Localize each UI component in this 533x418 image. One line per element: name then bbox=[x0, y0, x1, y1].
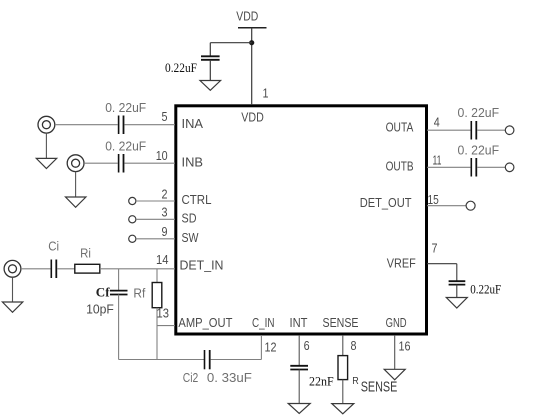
wire pin 12 C_IN stub bbox=[260, 335, 262, 360]
svg-text:GND: GND bbox=[386, 315, 407, 330]
svg-text:6: 6 bbox=[304, 338, 310, 353]
ground (pin 16) bbox=[384, 369, 405, 380]
svg-text:11: 11 bbox=[433, 153, 442, 168]
svg-text:12: 12 bbox=[265, 340, 277, 355]
resistor Ri bbox=[75, 246, 100, 274]
terminal (DET_OUT) bbox=[466, 201, 475, 210]
wire Ri to pin 14 bbox=[100, 268, 175, 270]
wire C2 to pin 5 bbox=[124, 124, 175, 126]
terminal (SD) bbox=[129, 216, 136, 223]
svg-text:INA: INA bbox=[182, 116, 204, 131]
svg-text:INB: INB bbox=[182, 154, 204, 169]
capacitor Cf 10pF bbox=[86, 286, 127, 317]
svg-text:DET_IN: DET_IN bbox=[180, 258, 224, 273]
wire Ci2 to pin 12 bbox=[211, 359, 262, 361]
wire pin 7 VREF to C7 bbox=[427, 264, 457, 281]
wire pin 4 OUTA to C5 bbox=[427, 129, 470, 131]
svg-text:14: 14 bbox=[156, 252, 169, 267]
wire DET_IN node down to Cf bbox=[118, 269, 120, 290]
svg-text:SW: SW bbox=[182, 230, 200, 245]
svg-text:0. 33uF: 0. 33uF bbox=[207, 370, 252, 385]
wire pin 6 INT stub bbox=[298, 335, 300, 365]
svg-text:0.22uF: 0.22uF bbox=[470, 283, 501, 297]
wire VDD vertical to pin 1 bbox=[251, 28, 253, 105]
svg-text:13: 13 bbox=[157, 306, 170, 321]
wire C6 to terminal bbox=[477, 166, 505, 168]
connector J1 (INA input) bbox=[38, 116, 55, 133]
wire bottom rail to Ci2 bbox=[119, 359, 204, 361]
ground (J2) bbox=[66, 172, 86, 208]
capacitor Ci2 0.33uF bbox=[183, 350, 252, 385]
resistor Rf bbox=[133, 283, 161, 308]
svg-text:0. 22uF: 0. 22uF bbox=[458, 105, 500, 120]
ground (J1) bbox=[36, 133, 56, 168]
wire SW to pin 9 bbox=[136, 238, 175, 240]
svg-text:Ri: Ri bbox=[80, 246, 91, 261]
wire J1 to C2 bbox=[55, 124, 118, 126]
resistor RSENSE bbox=[338, 356, 397, 404]
terminal (SW) bbox=[129, 235, 136, 242]
wire Cf down to bottom rail bbox=[118, 295, 120, 360]
power symbol VDD bbox=[236, 9, 266, 28]
connector J3 (DET_IN input) bbox=[4, 260, 21, 277]
svg-text:5: 5 bbox=[162, 109, 168, 124]
svg-text:0. 22uF: 0. 22uF bbox=[105, 139, 146, 154]
wire J3 to Ci bbox=[21, 268, 50, 270]
capacitor C7 0.22uF (VREF) bbox=[449, 281, 502, 297]
wire DET_IN node down to Rf bbox=[156, 269, 158, 283]
svg-text:2: 2 bbox=[162, 186, 168, 201]
svg-text:9: 9 bbox=[162, 224, 168, 239]
junction dot VDD node bbox=[249, 40, 254, 45]
svg-text:8: 8 bbox=[351, 338, 357, 353]
ground (VDD decoupling cap) bbox=[200, 81, 221, 91]
svg-text:SENSE: SENSE bbox=[323, 315, 359, 330]
svg-text:SENSE: SENSE bbox=[361, 378, 398, 395]
svg-text:Cf: Cf bbox=[96, 286, 111, 300]
svg-text:OUTB: OUTB bbox=[386, 159, 414, 174]
svg-text:Ci: Ci bbox=[48, 239, 59, 254]
wire C5 to terminal bbox=[477, 129, 505, 131]
wire VDD branch to C1 bbox=[210, 43, 251, 56]
svg-text:Ci2: Ci2 bbox=[183, 370, 199, 385]
terminal (CTRL) bbox=[129, 197, 136, 204]
wire pin 16 GND stub bbox=[394, 335, 396, 369]
svg-text:Rf: Rf bbox=[133, 286, 145, 301]
wire pin 8 SENSE stub bbox=[342, 335, 344, 356]
svg-text:0.22uF: 0.22uF bbox=[165, 61, 197, 75]
capacitor C2 0.22uF (INA) bbox=[105, 100, 146, 134]
wire J2 to C3 bbox=[84, 162, 118, 164]
svg-text:C_IN: C_IN bbox=[252, 315, 275, 330]
wire pin 13 AMP_OUT stub bbox=[157, 325, 175, 327]
svg-text:16: 16 bbox=[399, 339, 411, 354]
svg-text:DET_OUT: DET_OUT bbox=[360, 195, 412, 210]
capacitor C3 0.22uF (INB) bbox=[105, 139, 146, 173]
svg-text:1: 1 bbox=[263, 86, 269, 101]
svg-text:0. 22uF: 0. 22uF bbox=[105, 100, 146, 115]
svg-text:0. 22uF: 0. 22uF bbox=[458, 143, 500, 158]
capacitor Ci bbox=[48, 239, 59, 279]
svg-text:3: 3 bbox=[162, 205, 168, 220]
wire SD to pin 3 bbox=[136, 218, 175, 220]
capacitor C1 0.22uF (VDD decoupling) bbox=[165, 56, 220, 80]
wire C3 to pin 10 bbox=[124, 162, 175, 164]
ground (VREF cap) bbox=[446, 298, 467, 309]
terminal (OUTA) bbox=[505, 126, 514, 135]
svg-text:7: 7 bbox=[432, 241, 438, 256]
svg-text:10pF: 10pF bbox=[86, 302, 114, 317]
wire Rf down through pin13 node to bottom rail bbox=[156, 308, 158, 360]
capacitor C6 0.22uF (OUTB) bbox=[458, 143, 500, 177]
svg-text:4: 4 bbox=[434, 115, 440, 130]
svg-text:SD: SD bbox=[182, 210, 197, 225]
wire Ci to Ri bbox=[57, 268, 74, 270]
svg-text:10: 10 bbox=[156, 148, 168, 163]
ground (INT cap) bbox=[288, 404, 310, 414]
wire pin 11 OUTB to C6 bbox=[427, 166, 470, 168]
svg-text:22nF: 22nF bbox=[309, 375, 334, 389]
svg-text:VDD: VDD bbox=[241, 110, 263, 125]
svg-text:AMP_OUT: AMP_OUT bbox=[178, 315, 232, 330]
wire CTRL to pin 2 bbox=[136, 200, 175, 202]
wire pin 15 DET_OUT stub bbox=[427, 205, 466, 207]
svg-text:OUTA: OUTA bbox=[386, 119, 414, 134]
svg-text:15: 15 bbox=[428, 192, 439, 207]
capacitor C4 22nF (INT) bbox=[290, 366, 333, 404]
ground (J3) bbox=[2, 277, 22, 312]
svg-text:VREF: VREF bbox=[387, 255, 416, 270]
svg-text:CTRL: CTRL bbox=[182, 192, 212, 207]
svg-text:INT: INT bbox=[290, 315, 308, 330]
capacitor C5 0.22uF (OUTA) bbox=[458, 105, 500, 140]
connector J2 (INB input) bbox=[67, 155, 84, 172]
ground (RSENSE) bbox=[332, 404, 354, 414]
svg-text:VDD: VDD bbox=[236, 9, 258, 24]
svg-text:R: R bbox=[352, 375, 359, 387]
terminal (OUTB) bbox=[505, 163, 514, 172]
IC U1 body bbox=[176, 106, 427, 334]
